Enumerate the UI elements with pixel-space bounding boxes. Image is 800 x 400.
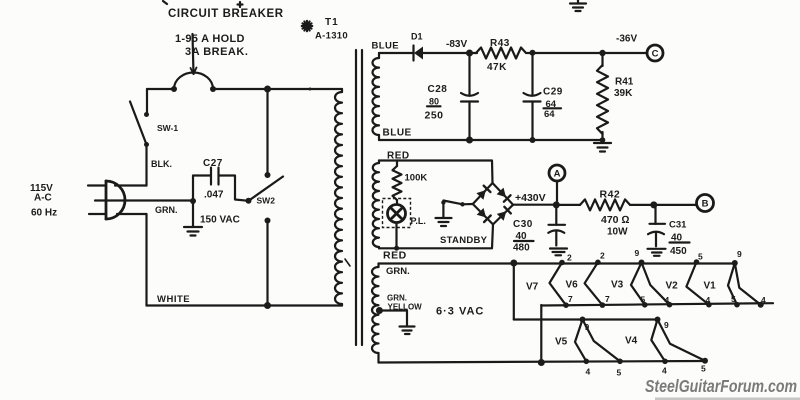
svg-text:C28: C28 bbox=[428, 84, 448, 95]
svg-text:5: 5 bbox=[731, 294, 736, 304]
svg-text:R42: R42 bbox=[600, 189, 621, 201]
svg-text:.047: .047 bbox=[204, 190, 224, 201]
svg-text:C27: C27 bbox=[203, 158, 223, 169]
svg-text:4: 4 bbox=[706, 295, 711, 305]
svg-text:150 VAC: 150 VAC bbox=[200, 215, 240, 226]
svg-text:40: 40 bbox=[671, 233, 683, 244]
svg-text:C31: C31 bbox=[669, 220, 687, 231]
svg-text:SW2: SW2 bbox=[257, 196, 276, 206]
svg-text:P.L.: P.L. bbox=[411, 216, 426, 226]
svg-text:4: 4 bbox=[586, 367, 591, 377]
svg-text:V3: V3 bbox=[611, 280, 624, 291]
svg-text:SW-1: SW-1 bbox=[157, 123, 178, 133]
svg-text:10W: 10W bbox=[607, 227, 628, 238]
svg-text:7: 7 bbox=[568, 294, 573, 304]
svg-text:V7: V7 bbox=[526, 282, 539, 293]
svg-text:CIRCUIT BREAKER: CIRCUIT BREAKER bbox=[168, 8, 284, 20]
svg-text:100K: 100K bbox=[405, 173, 428, 184]
svg-text:9: 9 bbox=[585, 322, 590, 332]
svg-text:3A BREAK.: 3A BREAK. bbox=[185, 46, 248, 58]
svg-text:RED: RED bbox=[383, 250, 407, 262]
svg-text:C: C bbox=[652, 49, 659, 60]
svg-text:GRN.: GRN. bbox=[386, 266, 410, 277]
svg-text:A-C: A-C bbox=[34, 193, 52, 204]
svg-text:V5: V5 bbox=[555, 337, 568, 348]
svg-text:BLUE: BLUE bbox=[372, 41, 399, 52]
svg-text:-36V: -36V bbox=[616, 34, 637, 45]
svg-text:GRN.: GRN. bbox=[387, 294, 407, 303]
svg-text:4: 4 bbox=[665, 295, 670, 305]
svg-text:BLUE: BLUE bbox=[383, 128, 412, 139]
svg-text:5: 5 bbox=[698, 252, 703, 262]
svg-text:9: 9 bbox=[635, 248, 640, 258]
svg-text:470 Ω: 470 Ω bbox=[601, 214, 630, 226]
svg-text:4: 4 bbox=[761, 295, 766, 305]
svg-text:2: 2 bbox=[600, 251, 605, 261]
svg-text:R43: R43 bbox=[490, 38, 510, 49]
svg-text:450: 450 bbox=[670, 246, 687, 257]
svg-text:V1: V1 bbox=[704, 281, 717, 292]
svg-text:YELLOW: YELLOW bbox=[388, 303, 423, 312]
svg-text:5: 5 bbox=[701, 364, 706, 374]
svg-text:+430V: +430V bbox=[515, 192, 546, 204]
svg-text:40: 40 bbox=[516, 231, 528, 242]
svg-text:80: 80 bbox=[429, 97, 439, 107]
svg-text:C30: C30 bbox=[513, 219, 533, 230]
svg-text:STANDBY: STANDBY bbox=[440, 235, 488, 246]
svg-text:250: 250 bbox=[425, 110, 444, 122]
svg-text:2: 2 bbox=[567, 253, 572, 263]
svg-text:A-1310: A-1310 bbox=[315, 31, 348, 42]
svg-text:A: A bbox=[554, 169, 561, 180]
svg-text:RED: RED bbox=[387, 151, 410, 162]
svg-text:B: B bbox=[702, 199, 709, 210]
svg-text:D1: D1 bbox=[411, 32, 423, 42]
svg-text:6·3 VAC: 6·3 VAC bbox=[436, 306, 484, 318]
svg-text:GRN.: GRN. bbox=[155, 205, 178, 215]
svg-text:7: 7 bbox=[605, 294, 610, 304]
svg-text:64: 64 bbox=[544, 109, 555, 120]
svg-text:-83V: -83V bbox=[446, 39, 467, 50]
svg-text:WHITE: WHITE bbox=[157, 294, 190, 305]
svg-text:R41: R41 bbox=[615, 77, 634, 88]
svg-text:5: 5 bbox=[617, 368, 622, 378]
svg-text:39K: 39K bbox=[614, 88, 633, 99]
svg-text:V4: V4 bbox=[625, 336, 638, 347]
svg-text:V2: V2 bbox=[666, 281, 679, 292]
svg-text:9: 9 bbox=[737, 249, 742, 259]
svg-text:T1: T1 bbox=[325, 17, 339, 28]
svg-text:9: 9 bbox=[664, 320, 669, 330]
svg-text:1-95 A HOLD: 1-95 A HOLD bbox=[175, 33, 245, 45]
svg-text:480: 480 bbox=[513, 243, 530, 254]
svg-text:60 Hz: 60 Hz bbox=[31, 208, 57, 219]
svg-text:BLK.: BLK. bbox=[151, 159, 172, 169]
svg-text:4: 4 bbox=[662, 366, 667, 376]
svg-text:C29: C29 bbox=[543, 87, 563, 98]
svg-text:5: 5 bbox=[641, 295, 646, 305]
svg-text:SteelGuitarForum.com: SteelGuitarForum.com bbox=[645, 376, 797, 396]
svg-text:47K: 47K bbox=[487, 62, 507, 73]
svg-text:V6: V6 bbox=[566, 280, 579, 291]
